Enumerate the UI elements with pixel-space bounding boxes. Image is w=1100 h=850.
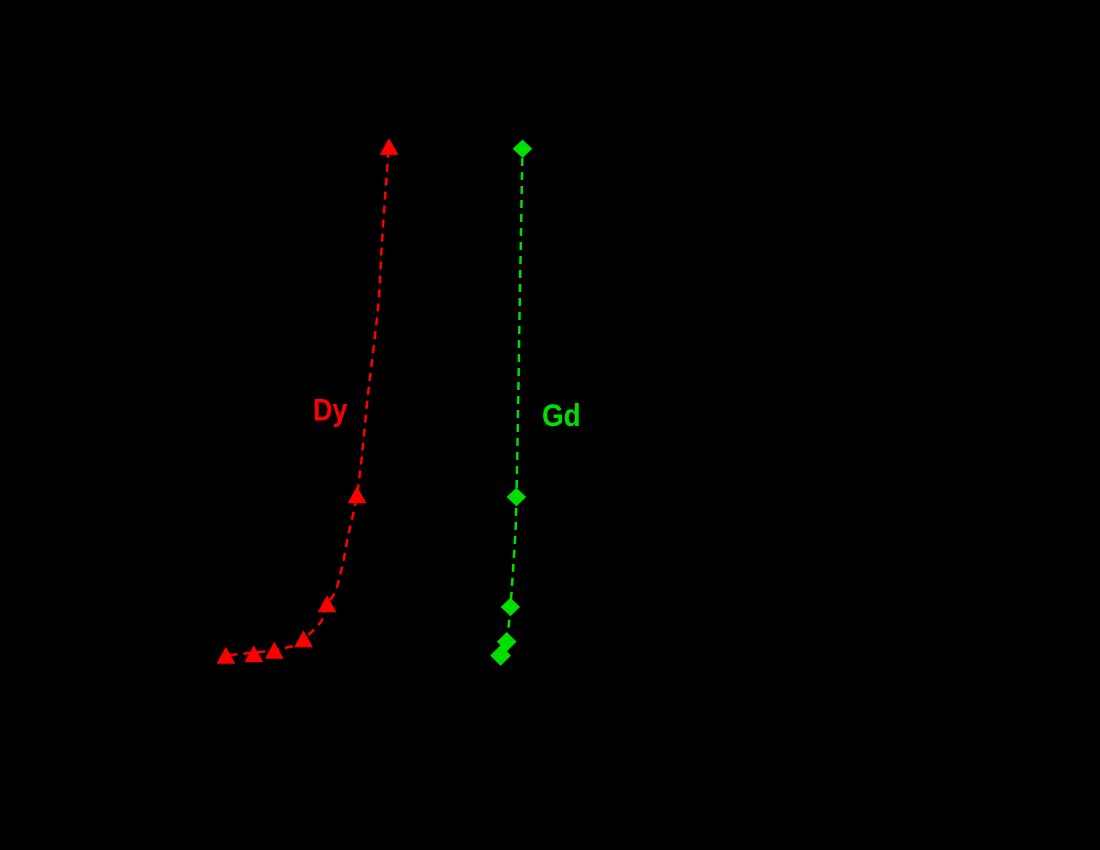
Dy marker 1 (top) [380, 138, 399, 155]
Gd series dashed curve [501, 149, 522, 656]
Dy series dashed curve [226, 147, 389, 656]
Dy marker 7 (leftmost) [217, 647, 236, 664]
Dy marker 2 [348, 486, 367, 503]
Dy marker 6 [244, 645, 263, 662]
Gd marker 1 (top) [513, 140, 533, 158]
Gd marker 2 [507, 488, 527, 506]
Dy marker 4 [294, 630, 313, 647]
svg-text:Dy: Dy [313, 391, 348, 427]
Dy marker 3 [318, 595, 337, 612]
svg-text:Gd: Gd [542, 397, 581, 433]
Gd marker 4 [497, 632, 517, 652]
Gd marker 3 [501, 598, 520, 616]
Dy marker 5 [265, 642, 284, 659]
Gd marker 5 (bottom) [490, 645, 511, 666]
